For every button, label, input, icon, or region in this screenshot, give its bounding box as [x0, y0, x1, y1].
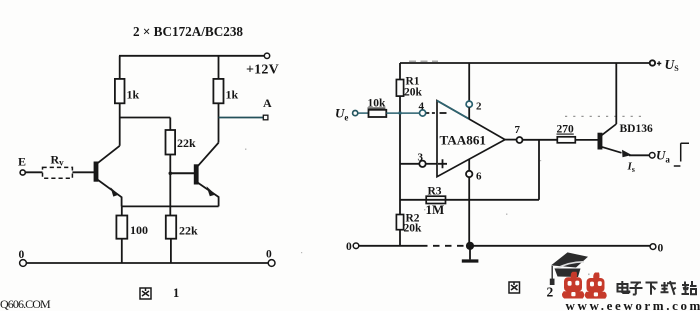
- svg-text:TAA861: TAA861: [440, 134, 487, 148]
- svg-text:R3: R3: [428, 186, 442, 198]
- svg-text:3: 3: [418, 152, 424, 164]
- svg-text:Ue: Ue: [335, 106, 348, 123]
- svg-text:1k: 1k: [127, 88, 140, 102]
- svg-text:7: 7: [515, 124, 521, 136]
- svg-text:2: 2: [476, 101, 482, 113]
- svg-text:1: 1: [173, 286, 179, 300]
- svg-text:22k: 22k: [179, 224, 198, 238]
- svg-text:1k: 1k: [226, 88, 239, 102]
- svg-text:100: 100: [130, 223, 148, 237]
- svg-text:www.eeworm.com: www.eeworm.com: [566, 298, 700, 311]
- svg-text:0: 0: [658, 243, 664, 255]
- svg-text:Ua: Ua: [656, 148, 670, 165]
- svg-text:6: 6: [476, 171, 482, 183]
- svg-text:1M: 1M: [426, 202, 445, 217]
- svg-text:20k: 20k: [404, 87, 423, 99]
- svg-text:BD136: BD136: [620, 123, 653, 135]
- svg-text:Q606.COM: Q606.COM: [0, 297, 51, 311]
- svg-text:2: 2: [547, 285, 554, 300]
- svg-text:Rv: Rv: [51, 153, 65, 168]
- svg-text:2 × BC172A/BC238: 2 × BC172A/BC238: [133, 25, 243, 40]
- svg-text:22k: 22k: [177, 136, 196, 150]
- svg-text:E: E: [18, 155, 26, 169]
- svg-text:A: A: [263, 96, 272, 110]
- svg-text:270: 270: [557, 124, 575, 136]
- svg-text:0: 0: [346, 241, 352, 253]
- svg-text:0: 0: [19, 249, 25, 261]
- svg-text:+12V: +12V: [246, 63, 279, 78]
- svg-text:20k: 20k: [404, 223, 423, 235]
- svg-text:US: US: [665, 57, 680, 73]
- svg-text:0: 0: [266, 249, 272, 261]
- svg-text:Is: Is: [627, 161, 635, 175]
- svg-text:10k: 10k: [368, 98, 387, 110]
- svg-text:4: 4: [419, 101, 425, 113]
